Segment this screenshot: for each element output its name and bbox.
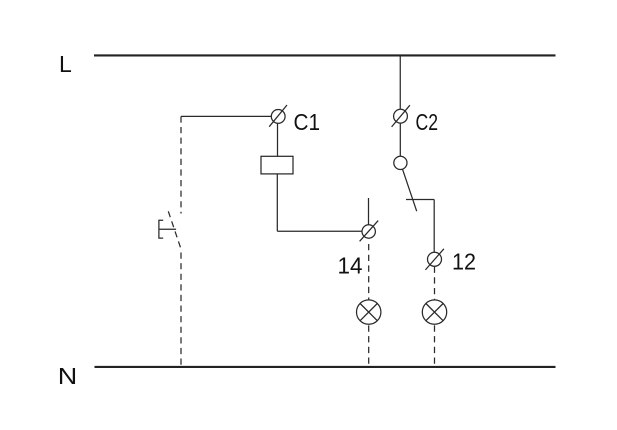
svg-text:C1: C1 [294, 109, 321, 135]
svg-text:N: N [58, 363, 78, 389]
svg-text:14: 14 [338, 253, 363, 279]
svg-text:C2: C2 [416, 109, 439, 135]
svg-text:L: L [59, 51, 72, 77]
svg-text:12: 12 [452, 248, 476, 274]
